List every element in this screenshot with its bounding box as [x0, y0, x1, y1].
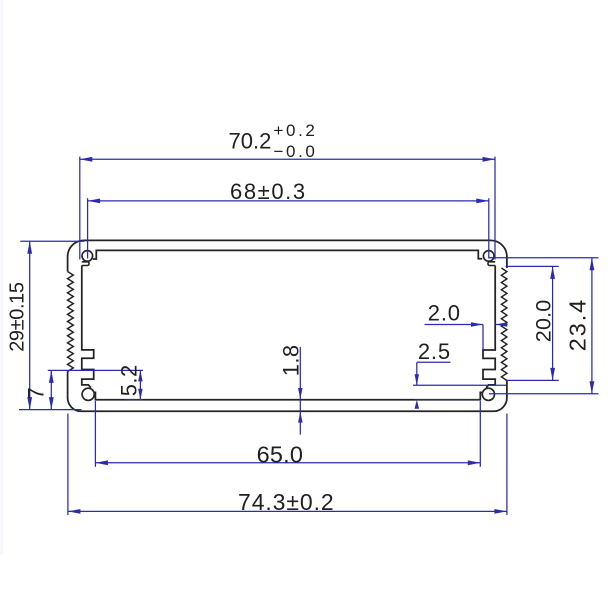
- inner right wall with PCB-slot teeth: [483, 266, 495, 388]
- svg-text:29±0.15: 29±0.15: [7, 282, 29, 352]
- dimension 68±0.3: [87, 198, 89, 258]
- inner floor with boss slots: [94, 392, 482, 399]
- inner ceiling with end steps: [93, 250, 482, 259]
- dimension 5.2: [139, 370, 141, 399]
- svg-text:74.3±0.2: 74.3±0.2: [238, 489, 335, 515]
- svg-text:70.2: 70.2: [229, 129, 272, 154]
- dimension 23.4 far right: [489, 257, 599, 259]
- inner left wall with PCB-slot teeth: [82, 266, 94, 388]
- svg-text:2.5: 2.5: [418, 339, 451, 364]
- left knurled edge: [68, 272, 74, 372]
- svg-text:−0.0: −0.0: [274, 142, 318, 161]
- screw boss bottom-left: [82, 388, 94, 400]
- outer profile of extrusion: [84, 240, 507, 268]
- screw boss top-left: [82, 251, 93, 262]
- dimension 70.2 +0.2/-0.0 top: [79, 157, 81, 260]
- dimension 2.0 right wall: [425, 324, 483, 326]
- svg-text:20.0: 20.0: [532, 300, 556, 343]
- svg-text:23.4: 23.4: [565, 298, 591, 351]
- dimension 7 lower-left: [48, 369, 143, 371]
- svg-text:7: 7: [23, 387, 48, 399]
- outer left upper: [68, 240, 84, 271]
- svg-text:65.0: 65.0: [257, 441, 304, 467]
- extension overlay on floor left: [125, 399, 143, 401]
- screw boss bottom-right: [482, 388, 494, 400]
- dimension 20.0 right: [506, 265, 559, 267]
- outer right lower + bottom + left lower: [68, 372, 507, 412]
- right knurled edge: [501, 268, 507, 381]
- svg-text:68±0.3: 68±0.3: [230, 179, 307, 204]
- svg-text:+0.2: +0.2: [274, 121, 318, 140]
- dimension 74.3±0.2 bottom: [67, 414, 69, 516]
- dimension 65.0 bottom: [94, 401, 96, 467]
- dimension 1.8 bottom wall: [299, 347, 301, 435]
- extension overlay on floor right: [415, 399, 480, 401]
- svg-text:1.8: 1.8: [279, 345, 304, 377]
- svg-text:2.0: 2.0: [428, 301, 461, 326]
- svg-text:5.2: 5.2: [117, 364, 142, 396]
- dimension 29±0.15 left: [20, 240, 84, 242]
- faint left page edge tint: [0, 0, 3, 555]
- screw boss top-right: [483, 251, 494, 262]
